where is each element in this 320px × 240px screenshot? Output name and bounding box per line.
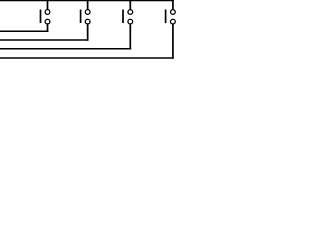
contact K1 lower stub wire	[47, 24, 49, 32]
contact K2 bottom contact circle	[85, 19, 90, 24]
contact K1 bottom contact circle	[45, 19, 50, 24]
contact K1 top contact circle	[45, 10, 50, 15]
wire net 4 to left edge	[0, 57, 174, 59]
contact K3 bottom contact circle	[128, 19, 133, 24]
contact K4 actuator bar	[165, 10, 167, 24]
top rail	[0, 0, 174, 2]
contact K4 top contact circle	[171, 10, 176, 15]
contact K3 upper stub wire	[129, 0, 131, 10]
contact K4 lower stub wire	[172, 24, 174, 59]
contact K4 bottom contact circle	[171, 19, 176, 24]
wire net 3 to left edge	[0, 48, 131, 50]
contact K4 upper stub wire	[172, 0, 174, 10]
contact K2 actuator bar	[80, 10, 82, 24]
contact K1 actuator bar	[40, 10, 42, 24]
contact K3 top contact circle	[128, 10, 133, 15]
wire net 2 to left edge	[0, 39, 89, 41]
contact K1 upper stub wire	[47, 0, 49, 10]
contact K2 upper stub wire	[87, 0, 89, 10]
contact K3 actuator bar	[122, 10, 124, 24]
contact K3 lower stub wire	[129, 24, 131, 50]
wire net 1 to left edge	[0, 30, 48, 32]
contact K2 lower stub wire	[87, 24, 89, 41]
contact K2 top contact circle	[85, 10, 90, 15]
